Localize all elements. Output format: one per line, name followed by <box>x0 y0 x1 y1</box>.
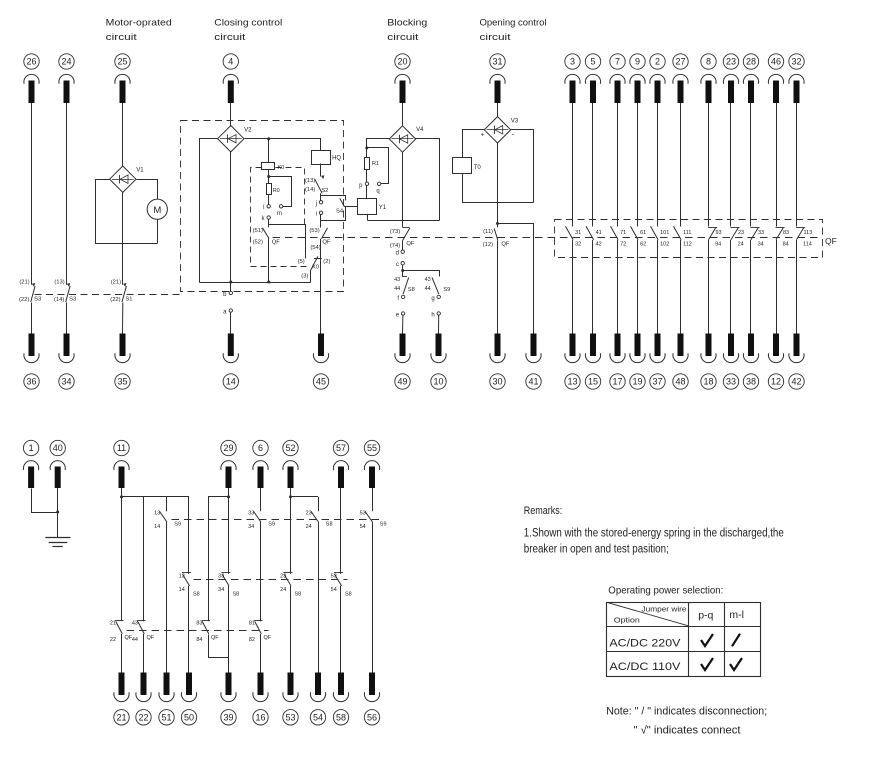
wire contact QF 83/84 to junction <box>209 635 229 658</box>
svg-text:T0: T0 <box>474 165 482 171</box>
remarks text block <box>524 505 784 556</box>
wire terminal 25 to bridge V1 <box>122 103 124 166</box>
svg-text:102: 102 <box>660 242 669 248</box>
svg-text:17: 17 <box>612 377 622 387</box>
svg-text:V2: V2 <box>244 128 252 134</box>
contact S9 33/34 (row 1) <box>248 510 275 530</box>
terminal 39 (bottom section bottom) <box>221 673 236 726</box>
svg-text:41: 41 <box>596 230 602 236</box>
anti-pumping device T0 <box>453 158 482 174</box>
terminal 57 (bottom section top) <box>333 440 348 488</box>
svg-text:52: 52 <box>285 443 295 453</box>
terminal 3 (top) <box>565 54 580 103</box>
svg-text:R1: R1 <box>372 161 379 167</box>
wire terminal 46 down to QF contact <box>776 103 778 227</box>
svg-text:43: 43 <box>425 277 431 283</box>
wire terminal 26 to contact S3 <box>31 103 33 285</box>
contact S8 33/34 (row 2) <box>218 573 239 598</box>
svg-text:QF: QF <box>406 241 415 247</box>
svg-text:20: 20 <box>397 57 407 67</box>
svg-text:AC/DC 220V: AC/DC 220V <box>609 637 681 649</box>
wire row1 contact to terminal 54 <box>318 522 320 672</box>
svg-text:" √" indicates connect: " √" indicates connect <box>634 725 741 737</box>
wire QF contact down to terminal 37 <box>657 240 659 334</box>
terminal 13 (bottom) <box>565 334 580 390</box>
svg-text:(14): (14) <box>305 187 315 193</box>
svg-text:23: 23 <box>280 574 286 580</box>
svg-text:Option: Option <box>614 616 640 625</box>
terminal 24 (top) <box>59 54 74 103</box>
svg-text:28: 28 <box>746 57 756 67</box>
auxiliary contact QF (53)(54) <box>309 228 331 251</box>
svg-text:56: 56 <box>367 713 377 723</box>
svg-text:Y1: Y1 <box>379 205 387 211</box>
polarity labels + - <box>481 130 515 139</box>
svg-text:9: 9 <box>635 57 640 67</box>
wire Y1 to blocking bottom rail <box>367 214 369 220</box>
svg-text:41: 41 <box>528 377 538 387</box>
terminal 18 (bottom) <box>701 334 716 390</box>
svg-text:Closing control: Closing control <box>214 18 282 29</box>
svg-text:QF: QF <box>264 635 272 641</box>
wire terminal 52 to contact S8 23/24 <box>290 488 292 574</box>
wire terminal 3 down to QF contact <box>572 103 574 227</box>
contact S9 13/14 (row 1) <box>154 510 181 530</box>
terminal 55 (bottom section top) <box>364 440 379 488</box>
wire QF contact down to terminal 33 <box>730 240 732 334</box>
wire S2 to node j with branch to S4 <box>321 193 346 200</box>
svg-text:(74): (74) <box>390 243 400 249</box>
svg-text:72: 72 <box>620 242 626 248</box>
note text <box>606 706 767 737</box>
svg-text:82: 82 <box>249 637 255 643</box>
wire bridge V2 output to node b <box>229 152 232 291</box>
wire tap to relay K0 coil <box>267 137 270 163</box>
resistor R0 <box>267 184 280 195</box>
wire branch k to contact K0 fixed point (5) <box>269 225 306 259</box>
terminal 50 (bottom section bottom) <box>181 673 196 726</box>
svg-text:113: 113 <box>804 230 813 236</box>
wire bridge V3 output down to contact QF (11) <box>496 143 499 227</box>
label: Closing control circuit header <box>214 18 282 44</box>
QF NO contact 61/62 <box>631 226 647 247</box>
terminal 36 (bottom) <box>24 334 39 390</box>
svg-text:38: 38 <box>746 377 756 387</box>
inner dashed box (anti-pumping relay section) <box>251 168 311 267</box>
svg-text:(22): (22) <box>110 297 120 303</box>
svg-text:25: 25 <box>117 57 127 67</box>
terminal 4 (top) <box>223 54 238 103</box>
svg-text:83: 83 <box>196 621 202 627</box>
svg-text:(54): (54) <box>310 245 320 251</box>
svg-text:S9: S9 <box>443 287 450 293</box>
QF NC contact 83/84 <box>776 228 790 248</box>
svg-text:84: 84 <box>196 637 202 643</box>
svg-text:27: 27 <box>675 57 685 67</box>
wire QF (12) to terminal 30 <box>497 241 499 334</box>
wire terminal 57 to contact S8 53/54 <box>340 488 342 574</box>
wire branch to node q <box>367 148 389 184</box>
terminal 56 (bottom section bottom) <box>364 673 379 726</box>
svg-text:p-q: p-q <box>698 610 713 622</box>
svg-text:(5): (5) <box>298 259 305 265</box>
wire bridge V2 left rail down <box>200 139 218 283</box>
label: Motor-operated circuit header <box>106 18 172 44</box>
svg-text:(21): (21) <box>111 279 121 285</box>
wire QF (74) to node d <box>402 240 404 250</box>
svg-text:R0: R0 <box>273 188 280 194</box>
svg-text:53: 53 <box>360 510 366 516</box>
svg-text:22: 22 <box>110 637 116 643</box>
switch contact S1 (21)/(22) <box>110 279 132 303</box>
terminal 17 (bottom) <box>610 334 625 390</box>
wire branch to terminal 41 <box>498 224 534 334</box>
svg-text:d: d <box>396 251 399 257</box>
wire contact S9 33/34 to contact QF 81/82 <box>260 522 262 621</box>
svg-text:13: 13 <box>567 377 577 387</box>
terminal 32 (top) <box>789 54 804 103</box>
relay coil K0 <box>262 163 285 171</box>
blocking electromagnet Y1 <box>358 199 387 215</box>
svg-text:24: 24 <box>61 57 71 67</box>
svg-text:46: 46 <box>771 57 781 67</box>
svg-text:43: 43 <box>132 621 138 627</box>
svg-text:112: 112 <box>683 242 692 248</box>
svg-text:14: 14 <box>154 524 160 530</box>
checkmark p-q 110V <box>701 658 713 670</box>
svg-text:44: 44 <box>394 286 400 292</box>
wire contact S9 to terminal 51 <box>166 522 168 672</box>
svg-text:q: q <box>376 188 379 194</box>
terminal 46 (top) <box>768 54 783 103</box>
svg-text:44: 44 <box>132 637 138 643</box>
terminal 28 (top) <box>743 54 758 103</box>
svg-text:101: 101 <box>660 230 669 236</box>
contact S8 23/24 (row 1) <box>306 510 333 530</box>
svg-text:V4: V4 <box>416 127 424 133</box>
svg-text:34: 34 <box>248 524 254 530</box>
terminal 38 (bottom) <box>743 334 758 390</box>
switch contact S3 (13)/(14) <box>54 279 76 303</box>
svg-text:35: 35 <box>117 377 127 387</box>
terminal 53 (bottom section bottom) <box>283 673 298 726</box>
terminal 16 (bottom section bottom) <box>253 673 268 726</box>
svg-text:S8: S8 <box>233 592 240 598</box>
node m <box>277 205 283 217</box>
terminal 29 (bottom section top) <box>221 440 236 488</box>
wire QF contact down to terminal 18 <box>708 240 710 334</box>
terminal 45 (bottom) <box>313 334 328 390</box>
svg-text:QF: QF <box>147 635 155 641</box>
wire terminal 55 to contact S9 53/54 <box>372 488 374 511</box>
contact S8 53/54 (row 2) <box>331 573 352 598</box>
checkmark m-l 110V <box>730 658 742 670</box>
contact S4 <box>336 198 345 214</box>
terminal 51 (bottom section bottom) <box>159 673 174 726</box>
terminal 20 (top) <box>395 54 410 103</box>
svg-text:36: 36 <box>26 377 36 387</box>
svg-text:61: 61 <box>640 230 646 236</box>
auxiliary contact QF (73)(74) <box>390 228 415 249</box>
bridge rectifier V3 <box>484 117 519 143</box>
wire terminal 31 to bridge V3 <box>497 103 499 117</box>
contact S2 (13)(14) <box>305 175 328 194</box>
wire contact QF to terminal 21 <box>121 634 123 673</box>
wire contact S8 23/24 to terminal 53 <box>290 586 292 673</box>
closing circuit bottom rail <box>200 282 311 284</box>
svg-text:19: 19 <box>632 377 642 387</box>
svg-text:57: 57 <box>336 443 346 453</box>
svg-text:(14): (14) <box>54 297 64 303</box>
svg-text:S8: S8 <box>345 592 352 598</box>
terminal 31 (top) <box>490 54 505 103</box>
svg-text:83: 83 <box>783 230 789 236</box>
wire bus to contact S9 13/14 <box>166 497 168 511</box>
svg-text:K0: K0 <box>312 265 319 271</box>
mechanical linkage dashed line row 1 <box>172 519 381 521</box>
wire node h to terminal 10 <box>438 315 440 333</box>
contact QF 43/44 (row 3) <box>132 621 155 643</box>
svg-text:Motor-oprated: Motor-oprated <box>106 18 172 29</box>
svg-text:30: 30 <box>492 377 502 387</box>
terminal 35 (bottom) <box>115 334 130 390</box>
bridge rectifier V2 <box>218 126 253 152</box>
terminal 15 (bottom) <box>585 334 600 390</box>
svg-text:26: 26 <box>26 57 36 67</box>
bus wire segment 11-50 <box>120 495 189 498</box>
terminal 48 (bottom) <box>673 334 688 390</box>
wire HQ to contact S2 <box>320 164 322 177</box>
terminal 52 (bottom section top) <box>283 440 298 488</box>
wire branch i to Y1 feed <box>321 207 346 221</box>
svg-text:c: c <box>396 262 399 268</box>
contact S8 43/44 <box>394 277 415 295</box>
wire contact S9 53/54 to terminal 56 <box>372 522 374 672</box>
wire contact QF to bottom rail <box>267 238 270 283</box>
svg-text:Opening control: Opening control <box>480 18 547 29</box>
svg-text:S9: S9 <box>380 522 387 528</box>
terminal 42 (bottom) <box>789 334 804 390</box>
wire branch to node m <box>269 177 292 207</box>
terminal 49 (bottom) <box>395 334 410 390</box>
wire bridge V1 right to motor <box>137 180 158 200</box>
QF NC contact 93/94 <box>708 228 722 248</box>
wire terminal 5 down to QF contact <box>592 103 594 227</box>
terminal 5 (top) <box>585 54 600 103</box>
svg-text:S8: S8 <box>326 522 333 528</box>
svg-text:h: h <box>431 313 434 319</box>
svg-text:111: 111 <box>683 230 691 236</box>
svg-text:53: 53 <box>285 713 295 723</box>
QF NC contact 113/114 <box>796 228 812 248</box>
wire terminal 28 down to QF contact <box>750 103 752 227</box>
wire terminal 11 to contact QF 21/22 <box>121 488 123 621</box>
svg-text:l: l <box>263 205 264 211</box>
svg-text:V1: V1 <box>136 168 144 174</box>
wire bus to contact S8 23/24 (row1) <box>318 497 320 511</box>
wire terminal 32 down to QF contact <box>796 103 798 227</box>
wire S4 to electromagnet Y1 <box>345 206 358 208</box>
auxiliary contact QF (51)(52) <box>253 228 281 246</box>
svg-text:S8: S8 <box>408 287 415 293</box>
svg-text:i: i <box>316 212 317 218</box>
bus wire segment 52-54 <box>289 495 318 498</box>
svg-text:S8: S8 <box>295 592 302 598</box>
svg-text:M: M <box>153 205 161 216</box>
svg-text:(13): (13) <box>305 178 315 184</box>
wire QF contact down to terminal 13 <box>572 240 574 334</box>
svg-text:13: 13 <box>179 574 185 580</box>
node q <box>376 182 380 194</box>
ground symbol <box>45 538 70 547</box>
svg-text:37: 37 <box>652 377 662 387</box>
node b <box>223 291 232 298</box>
terminal 26 (top) <box>24 54 39 103</box>
svg-text:+: + <box>481 132 485 139</box>
svg-text:7: 7 <box>615 57 620 67</box>
bridge rectifier V4 <box>389 126 424 152</box>
svg-text:33: 33 <box>758 230 764 236</box>
svg-text:14: 14 <box>179 587 185 593</box>
resistor R1 <box>365 158 380 170</box>
wire bridge V4 right rail <box>416 139 440 221</box>
svg-text:34: 34 <box>61 377 71 387</box>
svg-text:40: 40 <box>53 443 63 453</box>
svg-text:51: 51 <box>161 713 171 723</box>
wire QF contact down to terminal 42 <box>796 240 798 334</box>
svg-text:42: 42 <box>596 242 602 248</box>
svg-text:(73): (73) <box>390 229 400 235</box>
node k <box>262 216 271 222</box>
svg-text:breaker in open and test pasit: breaker in open and test pasition; <box>524 543 669 555</box>
wire node i down to contact QF (53) <box>320 215 322 228</box>
terminal 58 (bottom section bottom) <box>333 673 348 726</box>
svg-text:114: 114 <box>803 242 812 248</box>
label: Blocking circuit header <box>387 18 427 44</box>
wire node p to electromagnet Y1 <box>366 186 368 199</box>
svg-text:54: 54 <box>360 524 366 530</box>
switch contact S3 (21)/(22) <box>19 279 41 303</box>
wire bridge V1 left to bottom rail <box>96 180 123 244</box>
svg-text:circuit: circuit <box>387 32 418 43</box>
bus wire segment 29 parallel box <box>208 495 230 498</box>
svg-text:QF: QF <box>825 236 837 246</box>
terminal 10 (bottom) <box>431 334 446 390</box>
svg-text:AC/DC 110V: AC/DC 110V <box>609 661 681 673</box>
svg-text:18: 18 <box>703 377 713 387</box>
svg-text:93: 93 <box>716 230 722 236</box>
svg-text:4: 4 <box>228 57 233 67</box>
mechanical linkage dashed line row 2 <box>194 579 348 581</box>
svg-text:QF: QF <box>272 240 281 246</box>
wire rail riser to contact K0 <box>310 270 312 282</box>
svg-text:S2: S2 <box>321 188 328 194</box>
svg-text:33: 33 <box>248 510 254 516</box>
QF NO contact 31/32 <box>566 226 582 247</box>
svg-text:55: 55 <box>367 443 377 453</box>
slash m-l 220V <box>732 634 740 647</box>
svg-text:Operating power selection:: Operating power selection: <box>608 584 723 596</box>
svg-text:circuit: circuit <box>480 32 511 43</box>
wire bus to contact S8 13/14 <box>188 497 190 574</box>
node a <box>223 309 232 316</box>
svg-text:1.Shown with the stored-energy: 1.Shown with the stored-energy spring in… <box>524 528 784 540</box>
svg-text:84: 84 <box>783 242 789 248</box>
svg-text:15: 15 <box>588 377 598 387</box>
wire node a to terminal 14 <box>230 312 232 333</box>
svg-text:S3: S3 <box>69 297 76 303</box>
svg-text:(53): (53) <box>309 228 319 234</box>
wire opening right rail <box>511 130 534 203</box>
terminal 41 (bottom) <box>526 334 541 390</box>
svg-text:circuit: circuit <box>106 32 137 43</box>
svg-text:58: 58 <box>336 713 346 723</box>
contact S8 23/24 (row 2) <box>280 573 301 598</box>
wire node c to contact S8 <box>401 265 404 277</box>
svg-text:Jumper wire: Jumper wire <box>642 605 687 614</box>
svg-text:31: 31 <box>575 230 581 236</box>
wire terminal 40 to ground <box>56 488 59 538</box>
terminal 25 (top) <box>115 54 130 103</box>
wire contact S8 33/34 to terminal 39 <box>228 586 230 673</box>
wire T0 to opening bottom rail <box>462 174 464 202</box>
wire terminal 29 to contact S8 33/34 <box>228 488 230 574</box>
wire R0 to node l <box>268 195 270 205</box>
wire contact QF 81/82 to terminal 16 <box>260 634 262 673</box>
wire terminal 24 to contact S3 <box>66 103 68 285</box>
wire node k down to contact QF <box>268 219 270 227</box>
bridge rectifier V1 <box>110 166 145 192</box>
wire contact S3 to terminal 36 <box>31 303 33 334</box>
svg-text:Note: " / " indicates disco: Note: " / " indicates disconnection; <box>606 706 767 718</box>
opening circuit bottom rail <box>462 202 534 204</box>
svg-text:(11): (11) <box>483 229 493 235</box>
svg-text:34: 34 <box>758 242 764 248</box>
svg-text:53: 53 <box>331 574 337 580</box>
node f <box>397 295 404 302</box>
wire motor to bottom rail <box>157 219 159 243</box>
terminal 33 (bottom) <box>723 334 738 390</box>
wire terminal 23 down to QF contact <box>730 103 732 227</box>
svg-text:81: 81 <box>249 621 255 627</box>
wire K0 to resistor R0 <box>267 170 270 184</box>
wire terminal 9 down to QF contact <box>637 103 639 227</box>
svg-text:49: 49 <box>397 377 407 387</box>
wire contact S3 to terminal 34 <box>66 303 68 334</box>
node h <box>431 312 440 319</box>
wire motor bottom rail <box>123 243 158 245</box>
node e <box>396 312 405 319</box>
wire terminal 2 down to QF contact <box>657 103 659 227</box>
svg-text:S9: S9 <box>268 522 275 528</box>
terminal 6 (bottom section top) <box>253 440 268 488</box>
wire QF contact down to terminal 15 <box>592 240 594 334</box>
terminal 40 (bottom section top) <box>50 440 65 488</box>
node g <box>431 295 440 302</box>
label: Opening control circuit header <box>480 18 547 44</box>
svg-text:11: 11 <box>117 443 126 453</box>
node c <box>396 262 404 269</box>
closing control dashed enclosure box <box>181 121 344 292</box>
svg-text:2: 2 <box>655 57 660 67</box>
svg-text:23: 23 <box>738 230 744 236</box>
svg-text:V3: V3 <box>511 119 519 125</box>
node d <box>396 250 405 257</box>
svg-text:22: 22 <box>138 713 148 723</box>
svg-text:m: m <box>277 211 282 217</box>
svg-text:24: 24 <box>306 524 312 530</box>
wire branch to contact S9 <box>403 271 440 277</box>
